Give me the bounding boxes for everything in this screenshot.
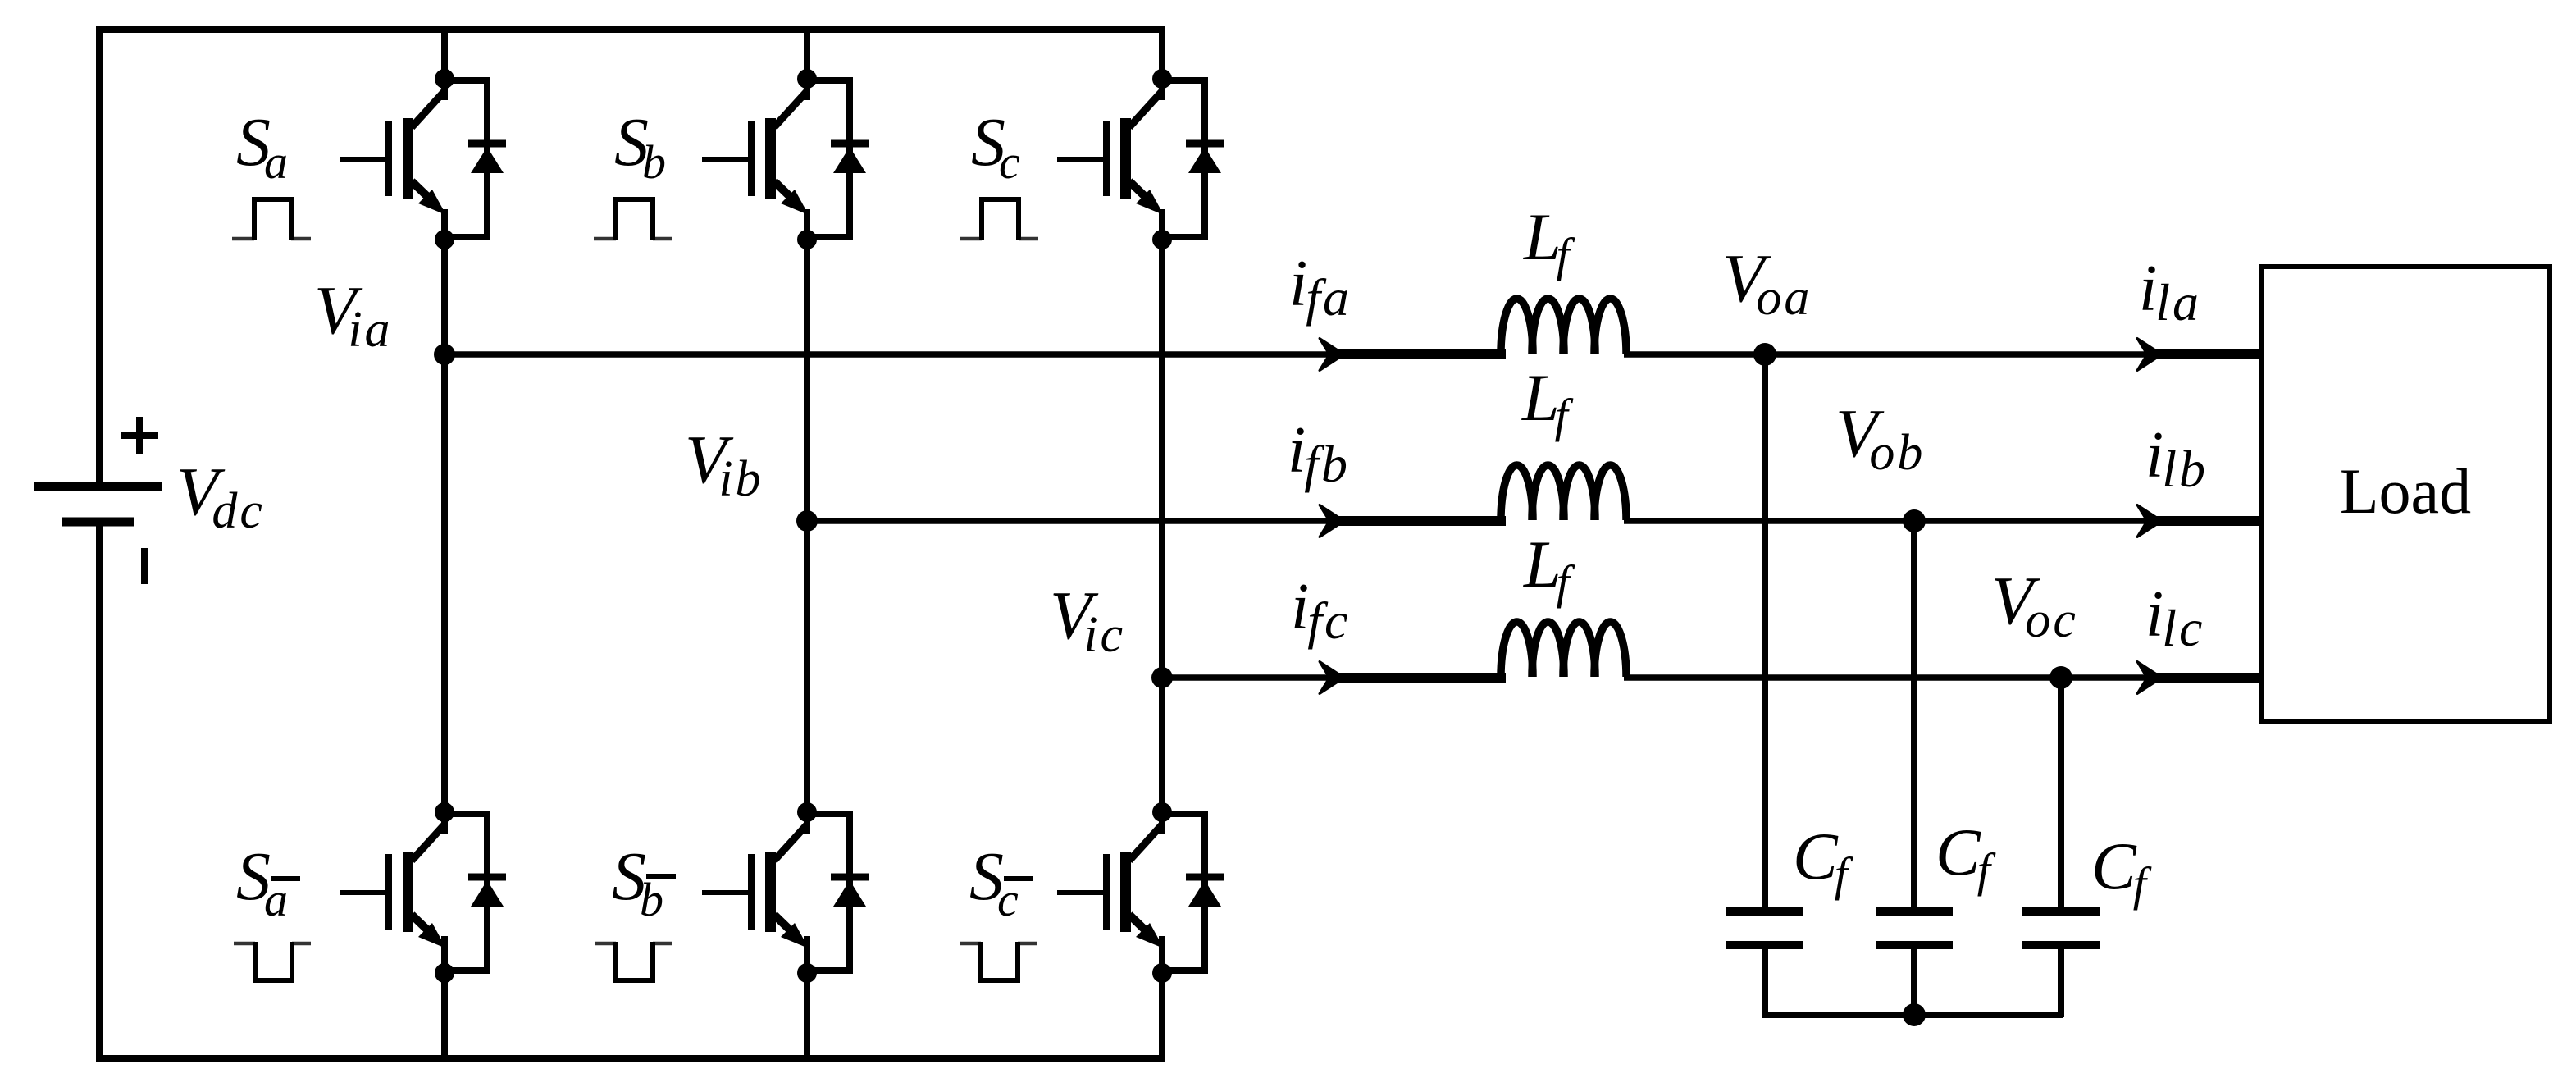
diode Dabar (antiparallel) [445,814,506,971]
inductor Lf phase b [1501,465,1533,520]
wire: phase a output line (inductor to load) [1624,351,2261,358]
wire: phase a thick segment entering load [2146,349,2263,359]
diode Dc (antiparallel) [1162,80,1224,237]
wire: leg c lower (switch to DC-) [1159,936,1165,1062]
battery minus sign [141,548,148,584]
wire: leg b middle (switch to switch via V_ib) [804,209,810,832]
wire: capacitor b to neutral tie [1911,948,1917,1017]
wire: leg b upper (DC+ to switch) [804,26,810,98]
wire: phase c output line (inverter to inductor) [1162,674,1506,681]
wire: phase c output line (inductor to load) [1624,674,2261,681]
current arrow i_lb [2137,505,2162,537]
wire: left rail upper (DC+ to battery) [96,26,103,486]
gate pulse symbol for Scbar (inverted) [960,942,1037,946]
diode Dbbar (antiparallel) [807,814,869,971]
wire: leg c upper (DC+ to switch) [1159,26,1165,98]
wire: V_oc vertical drop to filter capacitor [2058,678,2064,907]
diode Da (antiparallel) [445,80,506,237]
wire: phase b thick segment entering load [2146,516,2263,526]
wire: capacitor a to neutral tie [1762,948,1768,1017]
wire: phase c thick segment entering load [2146,673,2263,683]
node V_ic junction [1151,667,1173,688]
load box [2261,267,2550,721]
wire: top DC+ rail [97,26,1165,33]
wire: phase b output line (inverter to inductor) [807,518,1506,524]
wire: leg a lower (switch to DC-) [441,936,448,1062]
node: capacitor neutral junction [1903,1003,1926,1026]
battery Vdc negative plate [62,518,134,527]
current arrow i_fc [1320,662,1344,694]
current arrow i_lc [2137,662,2162,694]
diode Db (antiparallel) [807,80,869,237]
wire: leg c middle (switch to switch via V_ic) [1159,209,1165,832]
gate pulse symbol for Sabar (inverted) [234,942,311,946]
node V_ib junction [796,510,818,532]
current arrow i_la [2137,339,2162,371]
node V_oc junction [2049,666,2072,689]
transistor Sbbar (IGBT) [702,802,817,983]
node V_oa junction [1753,343,1776,366]
inductor Lf phase c [1501,622,1533,677]
wire: phase a output line (inverter to inductor) [445,351,1506,358]
gate pulse symbol for Sa [232,237,311,241]
capacitor Cf phase c [2022,907,2100,916]
wire: phase b output line (inductor to load) [1624,518,2261,524]
transistor Sc (IGBT) [1057,69,1172,249]
capacitor Cf phase b [1876,907,1953,916]
wire: capacitor c to neutral tie [2058,948,2064,1017]
transistor Sa (IGBT) [340,69,454,249]
transistor Sb (IGBT) [702,69,817,249]
wire: phase b thick segment before filter inductor [1329,516,1506,526]
wire: phase a thick segment before filter inductor [1329,349,1506,359]
capacitor Cf phase a [1726,907,1803,916]
gate pulse symbol for Sc [960,237,1038,241]
gate pulse symbol for Sbbar (inverted) [595,942,672,946]
gate pulse symbol for Sb [594,237,672,241]
inductor Lf phase a [1501,299,1533,354]
wire: left rail lower (battery to DC-) [96,522,103,1062]
current arrow i_fb [1320,505,1344,537]
wire: leg a middle (switch to switch via V_ia) [441,209,448,832]
wire: leg a upper (DC+ to switch) [441,26,448,98]
svg-text:Load: Load [2340,455,2471,527]
wire: bottom DC- rail [97,1055,1165,1062]
node V_ob junction [1903,509,1926,532]
battery Vdc positive plate [34,482,162,491]
transistor Sabar (IGBT) [340,802,454,983]
wire: V_ob vertical drop to filter capacitor [1911,521,1917,907]
wire: leg b lower (switch to DC-) [804,936,810,1062]
wire: phase c thick segment before filter inductor [1329,673,1506,683]
wire: capacitor neutral tie [1762,1012,2063,1018]
diode Dcbar (antiparallel) [1162,814,1224,971]
wire: V_oa vertical drop to filter capacitor [1762,354,1768,907]
node V_ia junction [434,344,455,365]
transistor Scbar (IGBT) [1057,802,1172,983]
current arrow i_fa [1320,339,1344,371]
battery plus sign [121,432,158,439]
